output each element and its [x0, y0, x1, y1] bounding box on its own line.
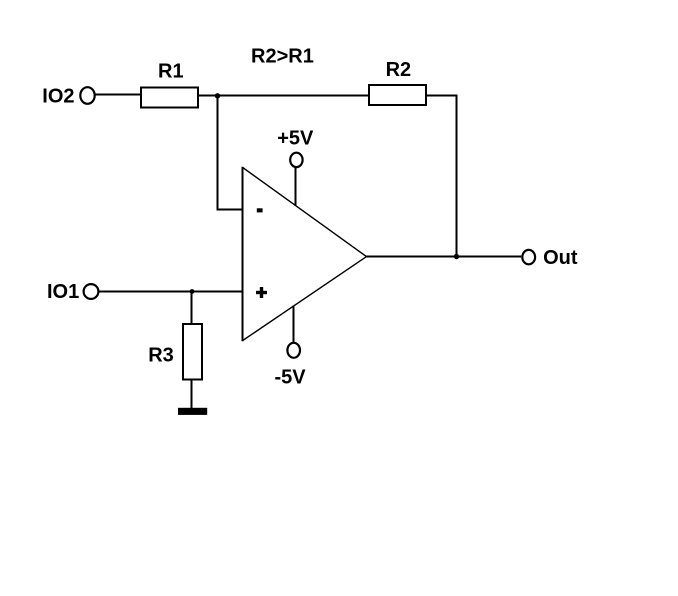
svg-text:R2: R2 — [386, 59, 412, 81]
svg-text:IO1: IO1 — [47, 281, 79, 303]
svg-text:+5V: +5V — [277, 128, 314, 150]
svg-text:R1: R1 — [158, 61, 184, 83]
svg-text:R3: R3 — [148, 345, 174, 367]
svg-text:IO2: IO2 — [42, 85, 74, 107]
svg-text:Out: Out — [543, 247, 578, 269]
svg-text:R2>R1: R2>R1 — [251, 46, 314, 68]
svg-text:-5V: -5V — [275, 367, 307, 389]
